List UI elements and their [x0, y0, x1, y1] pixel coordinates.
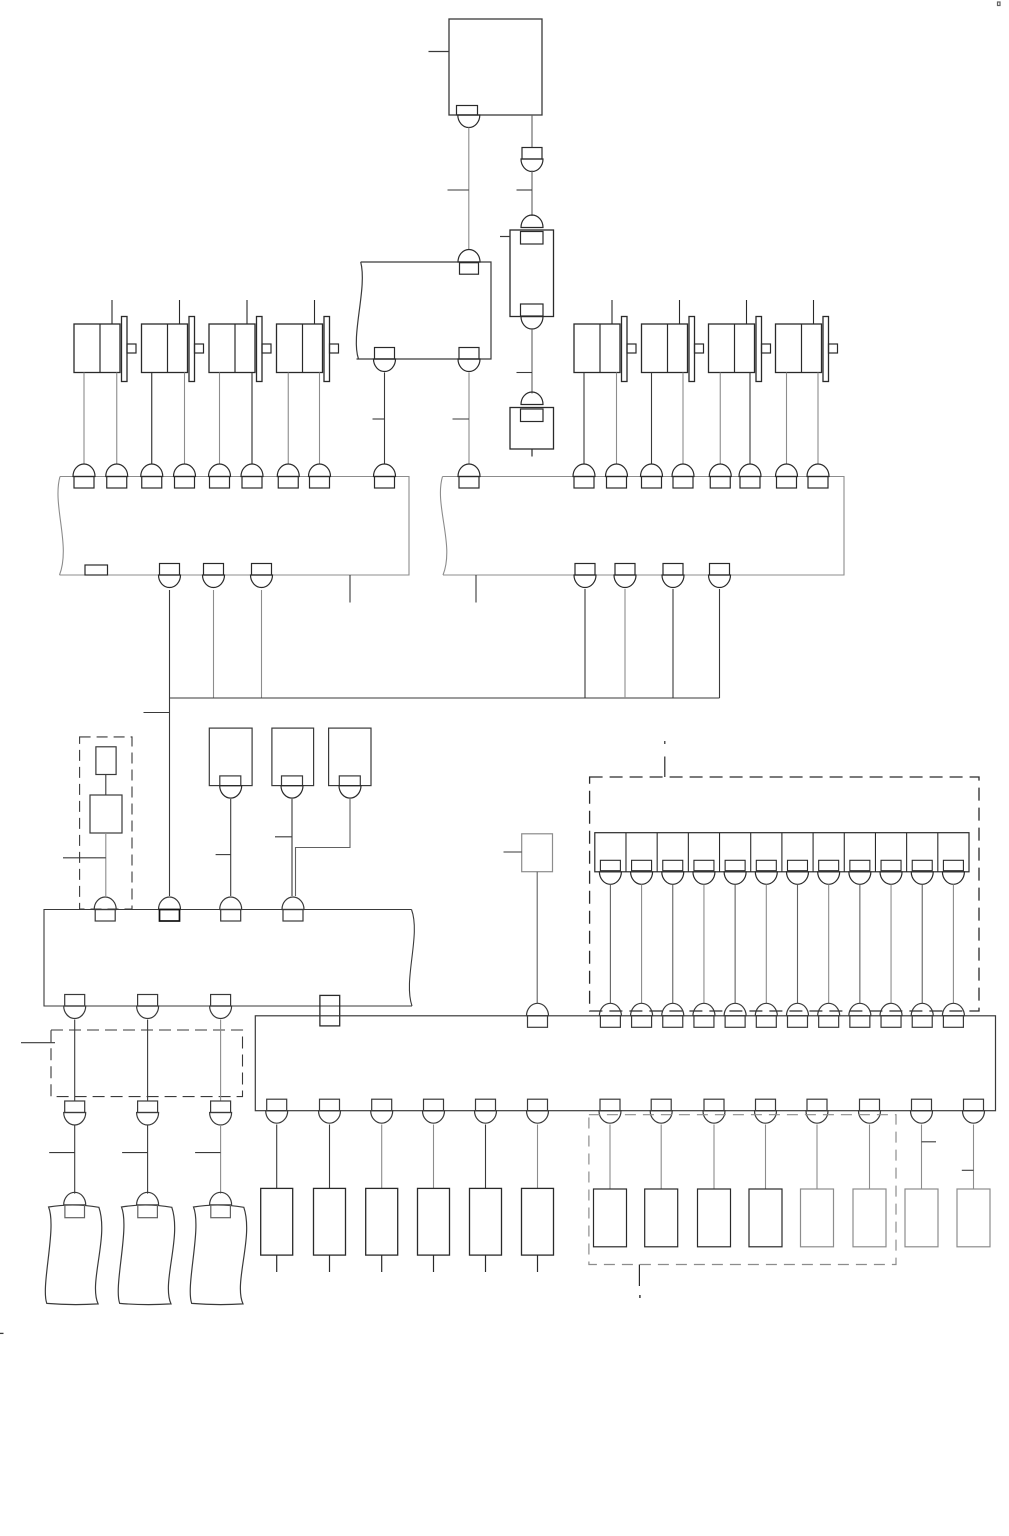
connector on J2 bottom 2: [614, 564, 636, 588]
connector on relay board bottom L1: [266, 1099, 288, 1123]
connector on J2 top for motor lead 5: [709, 464, 731, 488]
driver channel 12 wire: [952, 884, 954, 1003]
wire from J1 bottom 3 to bus: [261, 590, 263, 698]
output device (solenoid) R1: [594, 1189, 627, 1247]
connector rect on sheet 3: [211, 1205, 231, 1218]
tick on wire: [517, 372, 533, 374]
output device (solenoid) L1: [261, 1188, 293, 1255]
connector on relay board bottom L3: [371, 1099, 393, 1123]
cable 2 lower segment: [147, 1125, 149, 1194]
driver channel 4 wire: [703, 884, 705, 1003]
wire from J2 bottom 2 to bus: [624, 589, 626, 698]
wire below inline connector 1: [531, 171, 533, 217]
connector on J2 bottom 3: [662, 564, 684, 588]
output device wire L1: [276, 1125, 278, 1189]
sensor rect (small) in option unit: [96, 747, 116, 775]
terminal channel 4 connector: [693, 860, 715, 884]
output device (solenoid) L2: [314, 1188, 346, 1255]
controller unit box: [449, 19, 542, 115]
connector on power unit bottom-right: [458, 348, 480, 372]
motor M4 lead wire 2: [319, 373, 321, 465]
output device wire L5: [485, 1125, 487, 1189]
tick on S2 wire: [275, 836, 292, 838]
connector on relay board bottom L4: [423, 1099, 445, 1123]
driver channel 1 wire: [609, 884, 611, 1003]
wire between sensor rects: [105, 775, 107, 796]
terminal channel 12 connector: [942, 860, 964, 884]
stub below J1: [349, 575, 351, 603]
connector on J1 top for motor lead 4: [174, 464, 196, 488]
stub below output device L1: [276, 1255, 278, 1272]
motor M5: [574, 300, 636, 382]
output device (solenoid) R4: [749, 1189, 782, 1247]
tick on wire R8: [962, 1169, 974, 1171]
connector on control board bottom 1: [64, 995, 86, 1019]
leader line below output unit: [638, 1265, 641, 1299]
connector on J2 top for motor lead 3: [641, 464, 663, 488]
dashed interface box (bottom left): [51, 1030, 243, 1097]
stub below output device L3: [381, 1255, 383, 1272]
output device (solenoid) R5: [801, 1189, 834, 1247]
dashed option unit box (left): [80, 737, 132, 909]
wire from J1 bottom 2 to bus: [213, 590, 215, 698]
stub below small unit: [531, 449, 533, 457]
stub below output device L5: [485, 1255, 487, 1272]
wire from controller right side down: [531, 115, 533, 148]
socket dome atop relay box: [521, 215, 543, 228]
motor M8 lead wire 1: [786, 373, 788, 465]
wire power unit to junction box J1: [384, 373, 386, 465]
connector on relay board top ch3: [662, 1003, 684, 1027]
connector on J2 top for motor lead 8: [807, 464, 829, 488]
connector on relay board top ch10: [880, 1003, 902, 1027]
output device (solenoid) L4: [418, 1188, 450, 1255]
motor M3: [209, 300, 271, 382]
relay terminal board box: [255, 1016, 995, 1111]
tick on cable 2: [122, 1152, 148, 1154]
motor M3 lead wire 1: [219, 373, 221, 465]
connector on relay board bottom R7: [911, 1099, 933, 1123]
connector on control board top 2 (highlighted): [159, 897, 181, 921]
sensor box S2: [272, 728, 314, 786]
output device wire L4: [433, 1125, 435, 1189]
terminal channel 3 connector: [662, 860, 684, 884]
dashed output unit enclosure: [589, 1115, 896, 1265]
connector on J1 top for motor lead 5: [209, 464, 231, 488]
tick on wire: [517, 189, 533, 191]
output device wire R1: [609, 1125, 611, 1190]
connector rect on sheet 2: [138, 1205, 158, 1218]
connector rect at small unit top: [521, 409, 544, 422]
stub below output device L2: [329, 1255, 331, 1272]
sensor rect (large) in option unit: [90, 795, 122, 833]
driver channel 11 wire: [921, 884, 923, 1003]
wire from J2 bottom 3 to bus: [672, 589, 674, 698]
wire power unit to junction box J2: [468, 373, 470, 465]
connector on relay board top ch6: [755, 1003, 777, 1027]
sheet/strip symbol 3: [190, 1205, 246, 1305]
motor M5 lead wire 2: [616, 373, 618, 465]
wire S3 jog to shared connector: [296, 799, 351, 896]
output device wire L3: [381, 1125, 383, 1189]
connector on relay board bottom L6: [527, 1099, 549, 1123]
wire aux unit to relay terminal board: [536, 872, 538, 1004]
connector on relay board top ch1: [599, 1003, 621, 1027]
connector rect on sheet 1: [65, 1205, 85, 1218]
tick on option unit wire: [63, 857, 106, 859]
board-to-board connector block: [320, 995, 340, 1026]
connector on J2 top for motor lead 4: [672, 464, 694, 488]
sheet/strip symbol 2: [118, 1205, 174, 1305]
connector on J2 top for motor lead 7: [776, 464, 798, 488]
connector on J1 top for motor lead 7: [277, 464, 299, 488]
junction box J2 (torn left edge): [440, 477, 844, 576]
connector on relay board bottom R2: [650, 1099, 672, 1123]
connector on relay board top ch5: [724, 1003, 746, 1027]
connector on control board top 3: [220, 897, 242, 921]
output device wire R3: [713, 1125, 715, 1190]
motor M2: [142, 300, 204, 382]
aux unit box: [522, 834, 553, 872]
terminal channel 2 connector: [631, 860, 653, 884]
terminal channel 1 connector: [599, 860, 621, 884]
socket dome atop small unit: [521, 392, 543, 405]
connector on relay board bottom R1: [599, 1099, 621, 1123]
motor M2 lead wire 1: [151, 373, 153, 465]
control board box (torn right edge): [44, 910, 414, 1007]
terminal strip (12 channels) in driver unit: [595, 833, 969, 872]
sheet/strip symbol 1: [45, 1205, 101, 1305]
wire from J2 bottom 4 to bus: [719, 589, 721, 698]
cable 1 lower segment: [74, 1125, 76, 1194]
stub into controller unit left side: [429, 51, 450, 53]
connector on J2 top for power unit cable: [458, 464, 480, 488]
motor M8 lead wire 2: [817, 373, 819, 465]
connector on relay board top ch4: [693, 1003, 715, 1027]
connector on power unit top-right: [458, 249, 480, 274]
inline connector pair on cable 3: [210, 1101, 232, 1125]
motor M5 lead wire 1: [583, 373, 585, 465]
motor M1: [74, 300, 136, 382]
page edge dot (top right): [998, 2, 1001, 6]
connector CN-A on controller bottom (rect + dome): [457, 106, 480, 128]
connector on relay board top ch2: [631, 1003, 653, 1027]
connector on J1 bottom 1: [159, 564, 181, 588]
motor M1 lead wire 2: [116, 373, 118, 465]
tick on S1 wire: [216, 854, 231, 856]
inline connector pair on cable 1: [64, 1101, 86, 1125]
tick on wire CN-A: [448, 189, 469, 191]
driver channel 10 wire: [890, 884, 892, 1003]
motor M4: [277, 300, 339, 382]
connector under sensor box S2: [281, 776, 303, 798]
connector on relay board top for aux unit: [527, 1003, 549, 1027]
motor M7 lead wire 2: [749, 373, 751, 465]
sensor box S3: [329, 728, 371, 786]
terminal channel 7 connector: [786, 860, 808, 884]
terminal channel 10 connector: [880, 860, 902, 884]
connector on control board top 1: [94, 897, 116, 921]
output device (solenoid) L5: [470, 1188, 502, 1255]
motor M6 lead wire 1: [651, 373, 653, 465]
output device (solenoid) L6: [522, 1188, 554, 1255]
stub below output device L4: [433, 1255, 435, 1272]
connector on control board top 4: [282, 897, 304, 921]
sensor box S1: [209, 728, 252, 786]
horizontal bus wire: [170, 697, 720, 699]
tick on wire R7: [922, 1141, 937, 1143]
wire from option unit to control board: [105, 833, 107, 896]
motor M3 lead wire 2: [251, 373, 253, 465]
driver channel 2 wire: [641, 884, 643, 1003]
connector on relay board top ch12: [942, 1003, 964, 1027]
relay box (vertical): [510, 230, 554, 317]
wire S2 to control board: [291, 799, 293, 896]
connector on relay board top ch9: [849, 1003, 871, 1027]
connector on relay board bottom R8: [963, 1099, 985, 1123]
connector on relay board top ch11: [911, 1003, 933, 1027]
output device (solenoid) L3: [366, 1188, 398, 1255]
driver channel 9 wire: [859, 884, 861, 1003]
terminal channel 9 connector: [849, 860, 871, 884]
socket dome on sheet 2: [137, 1192, 159, 1205]
tick on cable 3: [195, 1152, 221, 1154]
output device wire L6: [537, 1125, 539, 1189]
motor M8: [776, 300, 838, 382]
connector on relay board bottom R3: [703, 1099, 725, 1123]
output device wire R7: [921, 1125, 923, 1190]
motor M6: [642, 300, 704, 382]
wire from J2 bottom 1 to bus: [584, 589, 586, 698]
driver channel 3 wire: [672, 884, 674, 1003]
motor M4 lead wire 1: [287, 373, 289, 465]
terminal channel 6 connector: [755, 860, 777, 884]
power unit box (torn left edge): [356, 262, 491, 359]
connector on control board bottom 3: [210, 995, 232, 1019]
output device (solenoid) R6: [853, 1189, 886, 1247]
junction box J1 (torn left edge): [58, 477, 409, 576]
motor M7: [709, 300, 771, 382]
stub below J2: [475, 575, 477, 603]
connector rect at relay box bottom: [521, 304, 544, 316]
connector on J1 bottom 3: [251, 564, 273, 588]
connector on relay board bottom R4: [755, 1099, 777, 1123]
connector on J2 top for motor lead 1: [573, 464, 595, 488]
terminal channel 11 connector: [911, 860, 933, 884]
small terminal rect on J1 bottom: [85, 565, 108, 575]
connector on relay board bottom L2: [319, 1099, 341, 1123]
motor M7 lead wire 1: [719, 373, 721, 465]
connector on relay board bottom L5: [475, 1099, 497, 1123]
driver channel 8 wire: [828, 884, 830, 1003]
terminal channel 8 connector: [818, 860, 840, 884]
socket dome on sheet 1: [64, 1192, 86, 1204]
output device (solenoid) R2: [645, 1189, 678, 1247]
trunk wire from J1 bottom 1 down to control board: [169, 590, 171, 896]
connector on relay board top ch7: [786, 1003, 808, 1027]
connector on J1 top for motor lead 3: [141, 464, 163, 488]
connector on control board bottom 2: [137, 995, 159, 1019]
driver channel 6 wire: [765, 884, 767, 1003]
tick on cable 1: [49, 1152, 74, 1154]
cable 1 from control board through interface box: [74, 1020, 76, 1101]
output device wire R4: [765, 1125, 767, 1190]
connector on J1 top for motor lead 2: [106, 464, 128, 488]
cable 3 from control board through interface box: [220, 1020, 222, 1101]
dome below relay box: [521, 317, 543, 330]
tick into dashed interface box: [21, 1042, 55, 1044]
terminal channel 5 connector: [724, 860, 746, 884]
connector on power unit bottom-left: [374, 348, 396, 372]
small unit box: [510, 408, 554, 450]
connector on J1 top for motor lead 1: [73, 464, 95, 488]
socket dome on sheet 3: [210, 1192, 232, 1205]
output device (solenoid) R8: [957, 1189, 990, 1247]
connector on J2 bottom 1: [574, 564, 596, 588]
wire S1 to control board: [230, 799, 232, 896]
wire from relay box down: [531, 329, 533, 394]
motor M1 lead wire 1: [83, 373, 85, 465]
connector on J2 top for motor lead 6: [739, 464, 761, 488]
output device wire R5: [816, 1125, 818, 1190]
connector on J1 top for power unit cable: [374, 464, 396, 488]
dashed driver unit enclosure: [590, 777, 979, 1011]
output device wire R2: [660, 1125, 662, 1190]
output device wire R8: [973, 1125, 975, 1190]
connector on J1 top for motor lead 8: [309, 464, 331, 488]
connector on J2 bottom 4: [709, 564, 731, 588]
stub below output device L6: [537, 1255, 539, 1272]
connector on relay board top ch8: [818, 1003, 840, 1027]
output device (solenoid) R7: [905, 1189, 938, 1247]
leader line above driver unit: [664, 741, 666, 777]
driver channel 7 wire: [796, 884, 798, 1003]
wire from CN-A down to power unit: [468, 128, 470, 250]
output device wire L2: [329, 1125, 331, 1189]
inline connector pair on cable 2: [137, 1101, 159, 1125]
connector on J1 top for motor lead 6: [241, 464, 263, 488]
connector under sensor box S3: [339, 776, 361, 798]
tick on wire: [453, 418, 470, 420]
motor M6 lead wire 2: [682, 373, 684, 465]
connector rect at relay box top: [521, 232, 544, 245]
connector on J1 bottom 2: [203, 564, 225, 588]
connector on relay board bottom R6: [859, 1099, 881, 1123]
driver channel 5 wire: [734, 884, 736, 1003]
tick on trunk wire: [144, 712, 170, 714]
tick on wire: [373, 418, 385, 420]
cable 3 lower segment: [220, 1125, 222, 1194]
output device (solenoid) R3: [698, 1189, 731, 1247]
connector under sensor box S1: [220, 776, 242, 798]
cable 2 from control board through interface box: [147, 1020, 149, 1101]
motor M2 lead wire 2: [184, 373, 186, 465]
connector on J2 top for motor lead 2: [606, 464, 628, 488]
output device wire R6: [869, 1125, 871, 1190]
page edge tick (left margin): [0, 1332, 4, 1334]
stub into aux unit left side: [504, 851, 522, 853]
connector on relay board bottom R5: [806, 1099, 828, 1123]
inline connector pair 1 (plug into socket): [521, 148, 543, 172]
stub into relay box left side: [500, 236, 510, 238]
